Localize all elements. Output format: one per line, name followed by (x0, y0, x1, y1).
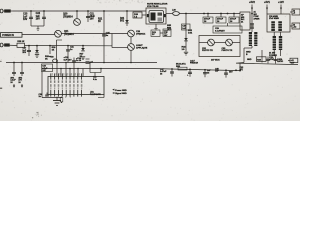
svg-text:(TR)9014: (TR)9014 (136, 33, 146, 36)
svg-text:Q20: Q20 (63, 14, 68, 16)
svg-text:XFMR: XFMR (254, 19, 260, 21)
svg-text:21F MU4: 21F MU4 (211, 58, 220, 61)
svg-text:4(1): 4(1) (240, 68, 244, 71)
svg-text:5V1: 5V1 (120, 20, 125, 22)
svg-text:Signal GND: Signal GND (115, 93, 127, 95)
svg-text:25V: 25V (22, 52, 26, 54)
svg-text:1u 16: 1u 16 (76, 60, 82, 62)
svg-text:R25 1K: R25 1K (17, 41, 25, 43)
svg-text:APPLIQUE: APPLIQUE (136, 47, 148, 50)
svg-text:16V: 16V (23, 18, 28, 21)
svg-text:PHOTO TR: PHOTO TR (202, 50, 213, 52)
svg-text:+5V1: +5V1 (264, 1, 271, 4)
svg-text:TL1274ACN: TL1274ACN (90, 93, 101, 96)
svg-text:R28: R28 (257, 60, 260, 62)
svg-text:GND: GND (247, 59, 252, 61)
svg-text:FWD/CR: FWD/CR (190, 63, 199, 65)
svg-text:+12V: +12V (278, 1, 284, 4)
svg-text:0.1uF/25V: 0.1uF/25V (215, 30, 225, 32)
svg-text:(TR)9014: (TR)9014 (63, 15, 73, 18)
svg-text:NOTE REGULATOR: NOTE REGULATOR (147, 2, 168, 5)
svg-text:16V: 16V (90, 19, 95, 21)
svg-text:+5V2: +5V2 (249, 1, 256, 4)
svg-text:17uF 41MU: 17uF 41MU (269, 17, 280, 20)
svg-text:PHOTO TR: PHOTO TR (222, 50, 233, 52)
svg-text:1uF 16V: 1uF 16V (64, 60, 73, 62)
svg-text:1G: 1G (182, 49, 185, 51)
svg-text:RATIO: RATIO (277, 60, 283, 63)
